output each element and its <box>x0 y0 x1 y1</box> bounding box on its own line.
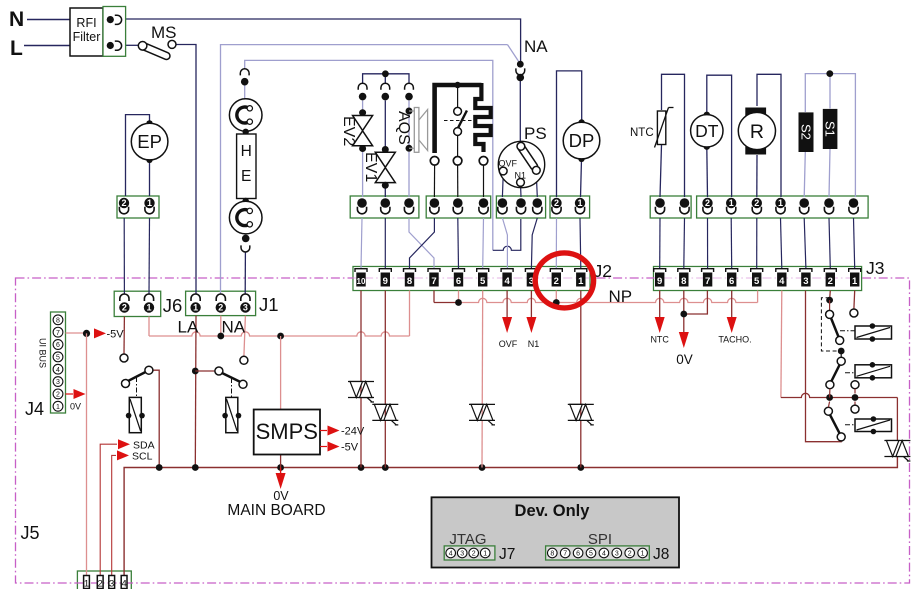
svg-text:OVF: OVF <box>499 339 518 349</box>
EP-conn pin 2 <box>119 198 129 208</box>
wire SDA to J5.2 <box>100 444 117 575</box>
EV1 inline pin <box>381 83 390 90</box>
EV-conn pin EV1 <box>381 198 391 208</box>
wire J3.8 J3.7 to 0V arrow <box>683 291 685 334</box>
connector NTC-conn box <box>650 196 691 218</box>
EV-conn pin EV2 <box>357 198 367 208</box>
connector EP-conn box <box>117 196 159 218</box>
svg-text:LA: LA <box>178 318 199 337</box>
svg-text:9: 9 <box>657 276 662 287</box>
svg-text:1: 1 <box>852 276 858 287</box>
svg-text:8: 8 <box>550 551 554 558</box>
J1 pin 3 <box>241 294 250 301</box>
svg-text:R: R <box>750 121 764 143</box>
EV-conn pin AQS <box>404 198 414 208</box>
wire DT conn to J3 pins 7 6 <box>707 218 709 269</box>
svg-text:6: 6 <box>729 276 734 287</box>
J2 pin 7 <box>428 269 440 272</box>
connector J3 box <box>654 267 862 291</box>
svg-text:EV2: EV2 <box>340 116 357 146</box>
triac T1 <box>348 381 374 383</box>
motor R <box>745 108 766 116</box>
svg-text:PS: PS <box>524 124 547 143</box>
J2 pin 2 <box>550 269 562 272</box>
motor-conn pin S1 <box>824 198 834 208</box>
wire SCL to J5.3 <box>112 455 116 575</box>
J4 pin 5 <box>53 352 63 362</box>
wire J2.1 through triac T4 to bus <box>580 291 582 468</box>
wire DL right to J2 pin 5 <box>482 218 485 269</box>
node NP junction J2.6 <box>458 291 460 303</box>
wire J3.9 to NTC arrow <box>659 291 661 319</box>
svg-text:H: H <box>241 143 252 160</box>
svg-text:1: 1 <box>146 303 151 313</box>
svg-text:J2: J2 <box>594 261 612 281</box>
net label TACHO arrow <box>727 317 737 333</box>
svg-text:3: 3 <box>803 276 808 287</box>
J4 pin 2 <box>53 389 63 399</box>
J3 pin 6 <box>726 269 738 272</box>
svg-text:J4: J4 <box>25 399 44 419</box>
svg-text:N1: N1 <box>528 339 540 349</box>
triac T4 <box>568 403 594 405</box>
J7 pin 4 <box>446 548 456 558</box>
svg-text:NTC: NTC <box>650 335 669 345</box>
connector J4 box <box>51 312 66 413</box>
AQS inline pin <box>405 83 414 90</box>
svg-text:10: 10 <box>357 277 366 286</box>
wire J1.3 to heater relay contact <box>244 316 246 357</box>
wire EP loop <box>126 115 150 196</box>
J2 pin 5 <box>477 269 489 272</box>
svg-text:1: 1 <box>84 579 89 589</box>
svg-text:SCL: SCL <box>132 451 153 463</box>
wire DL mid to J2 pin 6 <box>457 218 460 269</box>
wire J4.7 to -5V net <box>66 332 87 334</box>
svg-text:2: 2 <box>472 551 476 558</box>
net label NTC arrow <box>655 317 665 333</box>
J8 pin 6 <box>573 548 583 558</box>
node S1 top junction <box>826 70 833 77</box>
J8 pin 3 <box>612 548 622 558</box>
svg-text:NTC: NTC <box>630 127 654 139</box>
svg-text:7: 7 <box>705 276 710 287</box>
pump DP <box>578 119 584 125</box>
J2 pin 8 <box>404 269 416 272</box>
node 0V bus junctions <box>156 464 163 471</box>
svg-text:4: 4 <box>779 276 785 287</box>
svg-text:1: 1 <box>147 198 152 208</box>
svg-text:7: 7 <box>431 276 436 287</box>
J8 pin 2 <box>625 548 635 558</box>
J1 pin 1 <box>191 294 200 301</box>
svg-text:2: 2 <box>122 303 127 313</box>
J2 pin 10 <box>355 269 367 272</box>
J8 pin 4 <box>599 548 609 558</box>
wire J3.4 to relay commons and triac T5 <box>780 291 783 398</box>
svg-text:SMPS: SMPS <box>256 419 318 444</box>
svg-text:0V: 0V <box>676 352 693 367</box>
svg-text:8: 8 <box>681 276 686 287</box>
heater HE bottom inline pin <box>242 235 250 243</box>
J3 pin 7 <box>702 269 714 272</box>
dev-only box <box>432 497 680 567</box>
node NA inline connector <box>517 61 524 68</box>
svg-text:1: 1 <box>729 198 734 208</box>
wire HE top to PS N1 contact <box>245 60 493 250</box>
wire DP1 to J2 pin 1 <box>579 218 582 269</box>
connector DL-conn box <box>426 196 491 218</box>
svg-text:5: 5 <box>56 354 60 361</box>
svg-text:-5V: -5V <box>341 442 359 454</box>
wire EV group common bar <box>363 74 409 83</box>
J1 pin 2 <box>216 294 225 301</box>
J6 pin 1 <box>144 294 153 301</box>
svg-text:-24V: -24V <box>341 426 365 438</box>
svg-text:1: 1 <box>56 404 60 411</box>
board outline J5 (main board) <box>16 278 910 583</box>
motor-conn pin R1 <box>775 198 785 208</box>
svg-text:3: 3 <box>243 303 248 313</box>
net label 0V J3 arrow <box>679 332 689 348</box>
wire SMPS 0V output <box>280 455 282 468</box>
valve EV2 <box>359 109 366 116</box>
svg-text:1: 1 <box>577 198 582 208</box>
wire J6.2 to relay K1 contact <box>123 317 125 355</box>
J3 pin 3 <box>800 269 812 272</box>
wire to EV1 valve <box>384 101 386 149</box>
wire J3.6 to TACHO arrow <box>731 291 733 319</box>
svg-text:TACHO.: TACHO. <box>718 335 751 345</box>
pressure switch PS <box>498 141 544 187</box>
wire DP2 to J2 pin 2 <box>555 218 557 269</box>
node -5V junction <box>83 330 90 337</box>
svg-text:1: 1 <box>778 198 783 208</box>
J6 pin 2 <box>120 294 129 301</box>
svg-text:Filter: Filter <box>73 30 101 44</box>
svg-text:EV1: EV1 <box>362 152 379 182</box>
svg-text:1: 1 <box>483 551 487 558</box>
triac T5 <box>884 440 910 442</box>
sensor DT <box>704 112 710 118</box>
svg-text:RFI: RFI <box>76 16 96 30</box>
wire DL terminals to connector <box>433 165 435 197</box>
connector J5 box <box>77 571 131 589</box>
svg-text:2: 2 <box>628 551 632 558</box>
svg-text:6: 6 <box>576 551 580 558</box>
wire J2.3 to N1 arrow <box>530 291 532 319</box>
wire relay K1 common to 0V bus <box>153 370 159 467</box>
wire DL left to J2 pin 8 crossing <box>410 218 435 269</box>
svg-text:2: 2 <box>828 276 833 287</box>
J2 pin 9 <box>379 269 391 272</box>
wire AQS conn to J2 pin 7 crossing <box>409 218 434 269</box>
net label 0V J4 arrow <box>66 393 74 395</box>
J4 pin 1 <box>53 401 63 411</box>
J7 pin 2 <box>469 548 479 558</box>
node EV bar junction <box>382 70 389 77</box>
svg-text:6: 6 <box>56 342 60 349</box>
svg-text:4: 4 <box>121 579 126 589</box>
svg-text:1: 1 <box>641 551 645 558</box>
thermistor NTC <box>657 111 665 145</box>
NTC-conn pin 1 <box>655 198 665 208</box>
wire relay K2 common stub <box>195 370 215 372</box>
svg-text:3: 3 <box>56 379 60 386</box>
svg-text:0V: 0V <box>70 402 81 412</box>
relay K4 contact box <box>855 365 892 378</box>
EV2 inline pin <box>358 83 367 90</box>
wire LA vertical J1.1 to 0V bus <box>194 316 197 468</box>
svg-text:-5V: -5V <box>107 329 125 341</box>
wire J2.5 through triac T3 to bus <box>481 291 484 468</box>
svg-text:L: L <box>10 37 23 60</box>
relay K1 switch <box>123 357 125 359</box>
svg-text:Dev. Only: Dev. Only <box>515 502 591 520</box>
wire SMPS feed <box>280 336 282 410</box>
svg-text:AQS: AQS <box>395 111 412 145</box>
relay K3 switch <box>821 298 836 351</box>
door lock DL body <box>435 85 482 153</box>
wire NP net J2 section <box>434 302 459 304</box>
J5-conn pin 2 <box>97 576 103 589</box>
svg-text:NA: NA <box>222 318 246 337</box>
motor-conn pin DT2 <box>702 198 712 208</box>
svg-text:7: 7 <box>563 551 567 558</box>
svg-text:5: 5 <box>754 276 760 287</box>
wire NTC conn to J3 pins 9 8 <box>659 218 661 269</box>
svg-text:MAIN BOARD: MAIN BOARD <box>227 502 325 519</box>
DL-conn pin 3 <box>479 198 489 208</box>
J5-conn pin 4 <box>121 576 127 589</box>
J5-conn pin 3 <box>109 576 115 589</box>
wire DP loop <box>557 71 582 197</box>
net label -5V smps arrow <box>320 446 327 448</box>
net label SDA arrow <box>118 439 130 449</box>
wire J2.4 to OVF arrow <box>506 291 508 319</box>
svg-text:EP: EP <box>137 131 162 152</box>
wire DT loop <box>707 75 732 197</box>
svg-text:7: 7 <box>56 330 60 337</box>
J2 pin 6 <box>453 269 465 272</box>
svg-text:2: 2 <box>56 392 60 399</box>
net label SCL arrow <box>117 450 129 460</box>
wire MS to J1 pin 1 <box>176 45 196 295</box>
wire R conn to J3 pins 5 4 <box>756 218 758 269</box>
DL-conn pin 1 <box>430 198 440 208</box>
RFI pin 2 <box>107 42 114 49</box>
DP-conn pin 1 <box>575 198 585 208</box>
wire L to RFI filter <box>24 45 70 47</box>
DP-conn pin 2 <box>551 198 561 208</box>
svg-text:N: N <box>9 8 24 31</box>
wire NA net top to J1 pin 2 <box>221 45 508 294</box>
wire S2 S1 to connector <box>804 152 805 197</box>
svg-text:5: 5 <box>589 551 593 558</box>
svg-text:1: 1 <box>193 303 198 313</box>
svg-text:MS: MS <box>151 23 177 42</box>
interference suppressor S1 <box>823 109 838 149</box>
motor-conn pin DT1 <box>726 198 736 208</box>
RFI filter output connector <box>103 7 126 57</box>
svg-text:4: 4 <box>56 367 60 374</box>
wire HE bottom to J1 pin 3 <box>244 253 246 295</box>
J2 pin 3 <box>525 269 537 272</box>
connector PS-conn box <box>496 196 545 218</box>
J3 pin 4 <box>776 269 788 272</box>
svg-text:NP: NP <box>609 287 633 306</box>
svg-text:1: 1 <box>578 276 584 287</box>
RFI pin 1 <box>107 16 114 23</box>
motor EP <box>146 120 152 126</box>
connector DP-conn box <box>550 196 590 218</box>
wire J3.1 to spare contact <box>853 291 856 310</box>
svg-text:2: 2 <box>98 579 103 589</box>
relay K5 contact box <box>855 419 892 432</box>
connector J1 box <box>186 291 256 315</box>
net label N1 arrow <box>526 317 536 333</box>
svg-text:3: 3 <box>109 579 114 589</box>
motor-conn pin R2 <box>752 198 762 208</box>
svg-text:5: 5 <box>480 276 486 287</box>
svg-text:2: 2 <box>121 198 126 208</box>
svg-text:S1: S1 <box>823 121 838 137</box>
wire J3.2 to relay K3 common <box>829 291 832 301</box>
svg-text:3: 3 <box>460 551 464 558</box>
svg-text:DT: DT <box>695 121 719 141</box>
motor-conn pin S2 <box>799 198 809 208</box>
wire EV1 conn to J2 pin 9 <box>384 218 386 269</box>
wire -5V vertical to J5.1 <box>86 333 88 575</box>
relay K4 spare contacts <box>851 381 859 389</box>
wire NA to PS wiper <box>519 81 521 143</box>
svg-text:2: 2 <box>754 198 759 208</box>
svg-text:8: 8 <box>56 317 60 324</box>
svg-text:0V: 0V <box>273 489 289 503</box>
PS-conn pin N1 <box>516 198 526 208</box>
wire NA net on board (J6.1 - J1.2 - SMPS - J2.8) <box>148 317 150 337</box>
svg-text:9: 9 <box>383 276 388 287</box>
relay K1 coil <box>129 397 141 432</box>
wire N to RFI filter <box>27 19 70 21</box>
node NA-J1.2 junction <box>220 316 222 336</box>
node NP junction J2.2 <box>555 291 557 303</box>
relay K5 switch <box>824 407 832 415</box>
J8 pin 7 <box>560 548 570 558</box>
wire J2.9 through triac T2 to bus <box>384 291 386 468</box>
svg-text:J5: J5 <box>21 523 40 543</box>
connector J6 box <box>114 291 161 316</box>
wire to EV2 valve <box>362 101 364 112</box>
wire J2.7 to NP net <box>433 291 435 303</box>
svg-text:J7: J7 <box>499 546 515 563</box>
wire J3.3 to relay K5 contact <box>806 291 842 442</box>
relay K2 coil <box>226 397 238 432</box>
svg-text:2: 2 <box>218 303 223 313</box>
wire NP net J3 section <box>653 298 758 302</box>
heater HE body <box>237 134 256 199</box>
triac T2 <box>372 403 398 405</box>
wire R loop <box>757 74 781 197</box>
relay K3 contact box <box>855 326 892 339</box>
J2 pin 1 <box>575 269 587 272</box>
svg-text:J1: J1 <box>259 294 279 315</box>
wire PS wiper to J2 pin 3 <box>531 218 537 269</box>
svg-text:DP: DP <box>569 130 595 151</box>
wire HE top pin to element <box>244 85 246 99</box>
heater HE top inline pin <box>240 69 249 76</box>
J7 pin 1 <box>480 548 490 558</box>
wire N line to NA junction <box>126 19 521 61</box>
RFI filter box <box>70 8 103 56</box>
svg-text:UI BUS: UI BUS <box>38 338 48 368</box>
J3 pin 5 <box>751 269 763 272</box>
wire S conn to J3 pins 3 2 1 <box>804 218 806 269</box>
sensor AQS <box>406 108 413 115</box>
heater HE element top <box>229 99 262 132</box>
node LA switch junction <box>192 368 199 375</box>
svg-text:J8: J8 <box>653 546 669 563</box>
svg-text:E: E <box>241 168 251 185</box>
highlight circle on J2 pin 2 (NP) <box>535 253 593 308</box>
wire J2.10 through triac T1 to bus <box>360 291 362 468</box>
svg-text:J6: J6 <box>163 295 183 316</box>
J3 pin 2 <box>824 269 836 272</box>
net label OVF arrow <box>502 317 512 333</box>
J4 pin 3 <box>53 377 63 387</box>
wire EV2 conn to J2 pin 10 <box>361 218 362 269</box>
EP-conn pin 1 <box>144 198 154 208</box>
PS-conn pin wiper <box>533 198 543 208</box>
node NA-SMPS junction <box>277 333 284 340</box>
J3 pin 9 <box>654 269 666 272</box>
svg-text:8: 8 <box>407 276 412 287</box>
wire RFI to MS switch <box>126 44 139 46</box>
door lock DL terminals <box>430 157 439 166</box>
svg-text:2: 2 <box>705 198 710 208</box>
relay K2 switch <box>240 356 248 364</box>
net label -5V arrow <box>94 328 106 338</box>
node relay net junctions <box>826 394 833 401</box>
svg-text:J3: J3 <box>866 258 884 278</box>
J3 pin 1 <box>849 269 861 272</box>
NTC-conn pin 2 <box>680 198 690 208</box>
connector EV-conn box <box>350 196 419 218</box>
J4 pin 6 <box>53 340 63 350</box>
wire PS OVF to J2 pin 4 <box>502 218 507 269</box>
door lock DL switch <box>454 82 460 88</box>
heater HE element bottom <box>243 198 249 204</box>
J8 pin 8 <box>548 548 558 558</box>
motor-conn pin S0 <box>849 198 859 208</box>
svg-text:NA: NA <box>524 37 548 56</box>
PS-conn pin OVF <box>498 198 508 208</box>
J8 pin 1 <box>638 548 648 558</box>
wire PS contacts to connector <box>501 175 504 197</box>
J4 pin 8 <box>53 315 63 325</box>
J8 pin 5 <box>586 548 596 558</box>
net label 0V main board <box>280 468 282 476</box>
wire S2/S1 top bar <box>805 74 855 197</box>
wire EV1 to connector <box>384 189 386 198</box>
svg-text:2: 2 <box>554 276 559 287</box>
J3 pin 8 <box>678 269 690 272</box>
wire AQS to connector <box>408 152 410 197</box>
J2 pin 4 <box>501 269 513 272</box>
J4 pin 7 <box>53 327 63 337</box>
svg-text:4: 4 <box>449 551 453 558</box>
svg-text:6: 6 <box>456 276 461 287</box>
